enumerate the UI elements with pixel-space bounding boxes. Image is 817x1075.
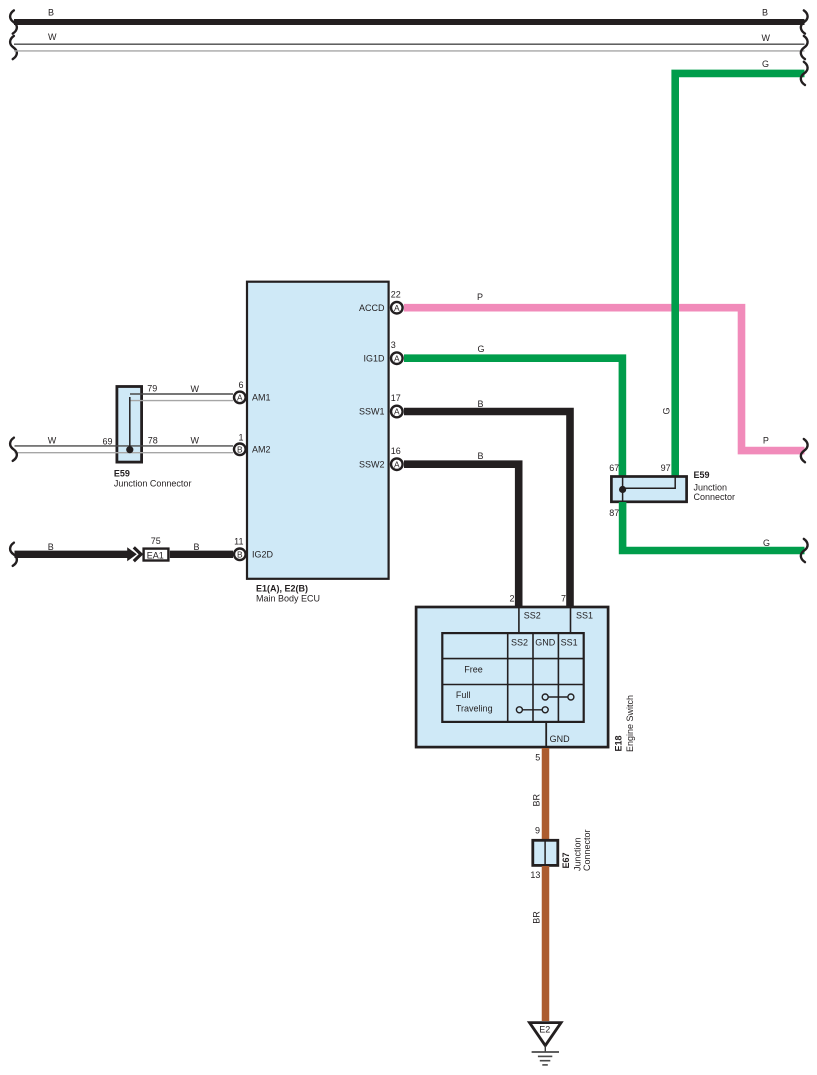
E59 (left) internal link pin 79 to busbar (129, 397, 131, 450)
svg-text:G: G (763, 538, 770, 548)
svg-text:67: 67 (609, 463, 619, 473)
wire W (left edge through E59 pins 69/78 to AM2, double line) (15, 436, 234, 453)
svg-text:Engine Switch: Engine Switch (625, 695, 635, 752)
svg-text:AM2: AM2 (252, 445, 271, 455)
svg-text:B: B (48, 7, 54, 17)
svg-text:B: B (194, 542, 200, 552)
svg-text:G: G (661, 407, 671, 414)
svg-text:P: P (763, 436, 769, 446)
svg-text:B: B (237, 550, 243, 560)
svg-text:16: 16 (391, 446, 401, 456)
wire G bus (top right, down to E59 pin 97) (661, 59, 804, 477)
pin 6 AM1 (A) (234, 380, 271, 403)
svg-text:A: A (394, 303, 400, 313)
svg-text:E59: E59 (694, 470, 710, 480)
svg-text:SSW2: SSW2 (359, 459, 385, 469)
svg-text:Main Body ECU: Main Body ECU (256, 593, 320, 603)
svg-text:SS1: SS1 (576, 610, 593, 620)
pin 17 SSW1 (A) (359, 393, 403, 417)
svg-text:97: 97 (661, 463, 671, 473)
wire W bus (top, double line) (14, 32, 805, 51)
svg-text:E67: E67 (561, 852, 571, 868)
off-page connector (wire P, right) (801, 439, 808, 462)
ground E2 (530, 1023, 562, 1065)
off-page connector (B bus, left) (10, 10, 17, 33)
svg-text:SS2: SS2 (511, 638, 528, 648)
svg-text:W: W (762, 33, 771, 43)
switch contact GND-SS1 (full traveling) (542, 694, 574, 700)
svg-text:EA1: EA1 (147, 550, 164, 560)
svg-text:Connector: Connector (582, 829, 592, 871)
off-page connector (G bus, right) (801, 62, 808, 85)
svg-text:6: 6 (238, 380, 243, 390)
svg-text:17: 17 (391, 393, 401, 403)
E59 (right) internal link from pin 97 (623, 477, 676, 488)
wire G (IG1D to E59 pin 67) (404, 344, 622, 477)
junction connector E59 (right) (609, 463, 735, 518)
wire B bus (top) (14, 7, 805, 22)
svg-text:3: 3 (391, 340, 396, 350)
svg-text:7: 7 (561, 593, 566, 603)
off-page connector (B bus, right) (801, 10, 808, 33)
svg-text:SS2: SS2 (524, 610, 541, 620)
svg-text:W: W (191, 384, 200, 394)
wire P (ACCD to right edge) (404, 292, 805, 450)
wire B (SSW1 to E18 pin 7) (404, 399, 570, 607)
svg-text:75: 75 (151, 536, 161, 546)
off-page connector (W bus, left) (10, 36, 17, 59)
E18 contact table (442, 633, 583, 722)
pin 1 AM2 (B) (234, 432, 271, 455)
junction connector E67 (pins 9/13) (530, 826, 592, 881)
svg-text:B: B (478, 399, 484, 409)
svg-text:Free: Free (464, 665, 483, 675)
svg-text:Connector: Connector (694, 492, 736, 502)
E18 internal lead table GND to pin 5 (545, 722, 547, 748)
svg-text:G: G (478, 344, 485, 354)
svg-text:78: 78 (148, 436, 158, 446)
off-page connector (wire W, left) (10, 438, 17, 461)
svg-text:B: B (237, 445, 243, 455)
svg-text:9: 9 (535, 826, 540, 836)
svg-text:E18: E18 (614, 735, 624, 751)
svg-text:Junction: Junction (694, 483, 728, 493)
svg-text:E59: E59 (114, 469, 130, 479)
svg-text:A: A (237, 393, 243, 403)
svg-text:A: A (394, 353, 400, 363)
off-page connector (wire G lower, right) (801, 539, 808, 562)
svg-text:GND: GND (535, 638, 556, 648)
svg-text:AM1: AM1 (252, 393, 271, 403)
wire BR (E18 pin 5 to E67 pin 9) (532, 748, 546, 840)
svg-text:W: W (191, 436, 200, 446)
wire W (E59 pin 79 to AM1, double line) (130, 384, 233, 401)
switch contact SS2-GND (full traveling) (516, 707, 548, 713)
svg-text:B: B (48, 542, 54, 552)
svg-text:ACCD: ACCD (359, 303, 385, 313)
svg-text:P: P (477, 292, 483, 302)
svg-text:E2: E2 (539, 1025, 550, 1035)
svg-text:79: 79 (147, 384, 157, 394)
pin 3 IG1D (A) (363, 340, 402, 364)
pin 16 SSW2 (A) (359, 446, 403, 470)
wire B (SSW2 to E18 pin 2) (404, 451, 519, 607)
svg-text:B: B (478, 451, 484, 461)
pin 11 IG2D (B) (234, 537, 274, 561)
svg-text:22: 22 (391, 289, 401, 299)
wire B (left edge to EA1) (15, 542, 129, 555)
E18 internal lead pin 2 to table SS2 (518, 608, 520, 633)
engine switch E18 (416, 607, 635, 752)
svg-text:Full: Full (456, 690, 471, 700)
wire B (EA1 to IG2D) (170, 542, 233, 555)
wire G (E59 pin 87 to right edge) (623, 502, 805, 551)
Main Body ECU E1(A), E2(B) (247, 282, 389, 604)
svg-text:BR: BR (532, 911, 542, 924)
E59 (right) internal busbar pin 67 to 87 (622, 477, 624, 502)
svg-text:Junction: Junction (573, 837, 583, 871)
svg-text:B: B (762, 7, 768, 17)
wire BR (E67 pin 13 to ground E2) (532, 866, 546, 1021)
off-page connector (W bus, right) (801, 36, 808, 59)
E18 internal lead pin 7 to table SS1 (570, 608, 572, 633)
svg-text:IG1D: IG1D (363, 353, 385, 363)
svg-text:A: A (394, 459, 400, 469)
svg-text:11: 11 (234, 537, 243, 547)
junction dot (E59 left) (126, 446, 133, 453)
svg-text:BR: BR (532, 793, 542, 806)
svg-text:W: W (48, 436, 57, 446)
svg-text:W: W (48, 32, 57, 42)
svg-text:GND: GND (550, 734, 571, 744)
svg-text:13: 13 (530, 870, 540, 880)
svg-text:Traveling: Traveling (456, 704, 493, 714)
svg-text:SSW1: SSW1 (359, 407, 385, 417)
svg-text:IG2D: IG2D (252, 550, 274, 560)
svg-text:Junction Connector: Junction Connector (114, 478, 192, 488)
svg-text:SS1: SS1 (561, 638, 578, 648)
svg-text:87: 87 (609, 508, 619, 518)
inline connector EA1 (pin 75) (127, 536, 168, 562)
junction dot (E59 right) (619, 486, 626, 493)
svg-text:1: 1 (238, 432, 243, 442)
svg-text:69: 69 (103, 436, 113, 446)
svg-text:5: 5 (535, 753, 540, 763)
pin 22 ACCD (A) (359, 289, 403, 313)
svg-text:2: 2 (509, 593, 514, 603)
junction connector E59 (left) (114, 387, 192, 489)
svg-text:E1(A), E2(B): E1(A), E2(B) (256, 583, 308, 593)
svg-text:G: G (762, 59, 769, 69)
svg-text:A: A (394, 407, 400, 417)
off-page connector (wire B IG2D, left) (10, 543, 17, 566)
